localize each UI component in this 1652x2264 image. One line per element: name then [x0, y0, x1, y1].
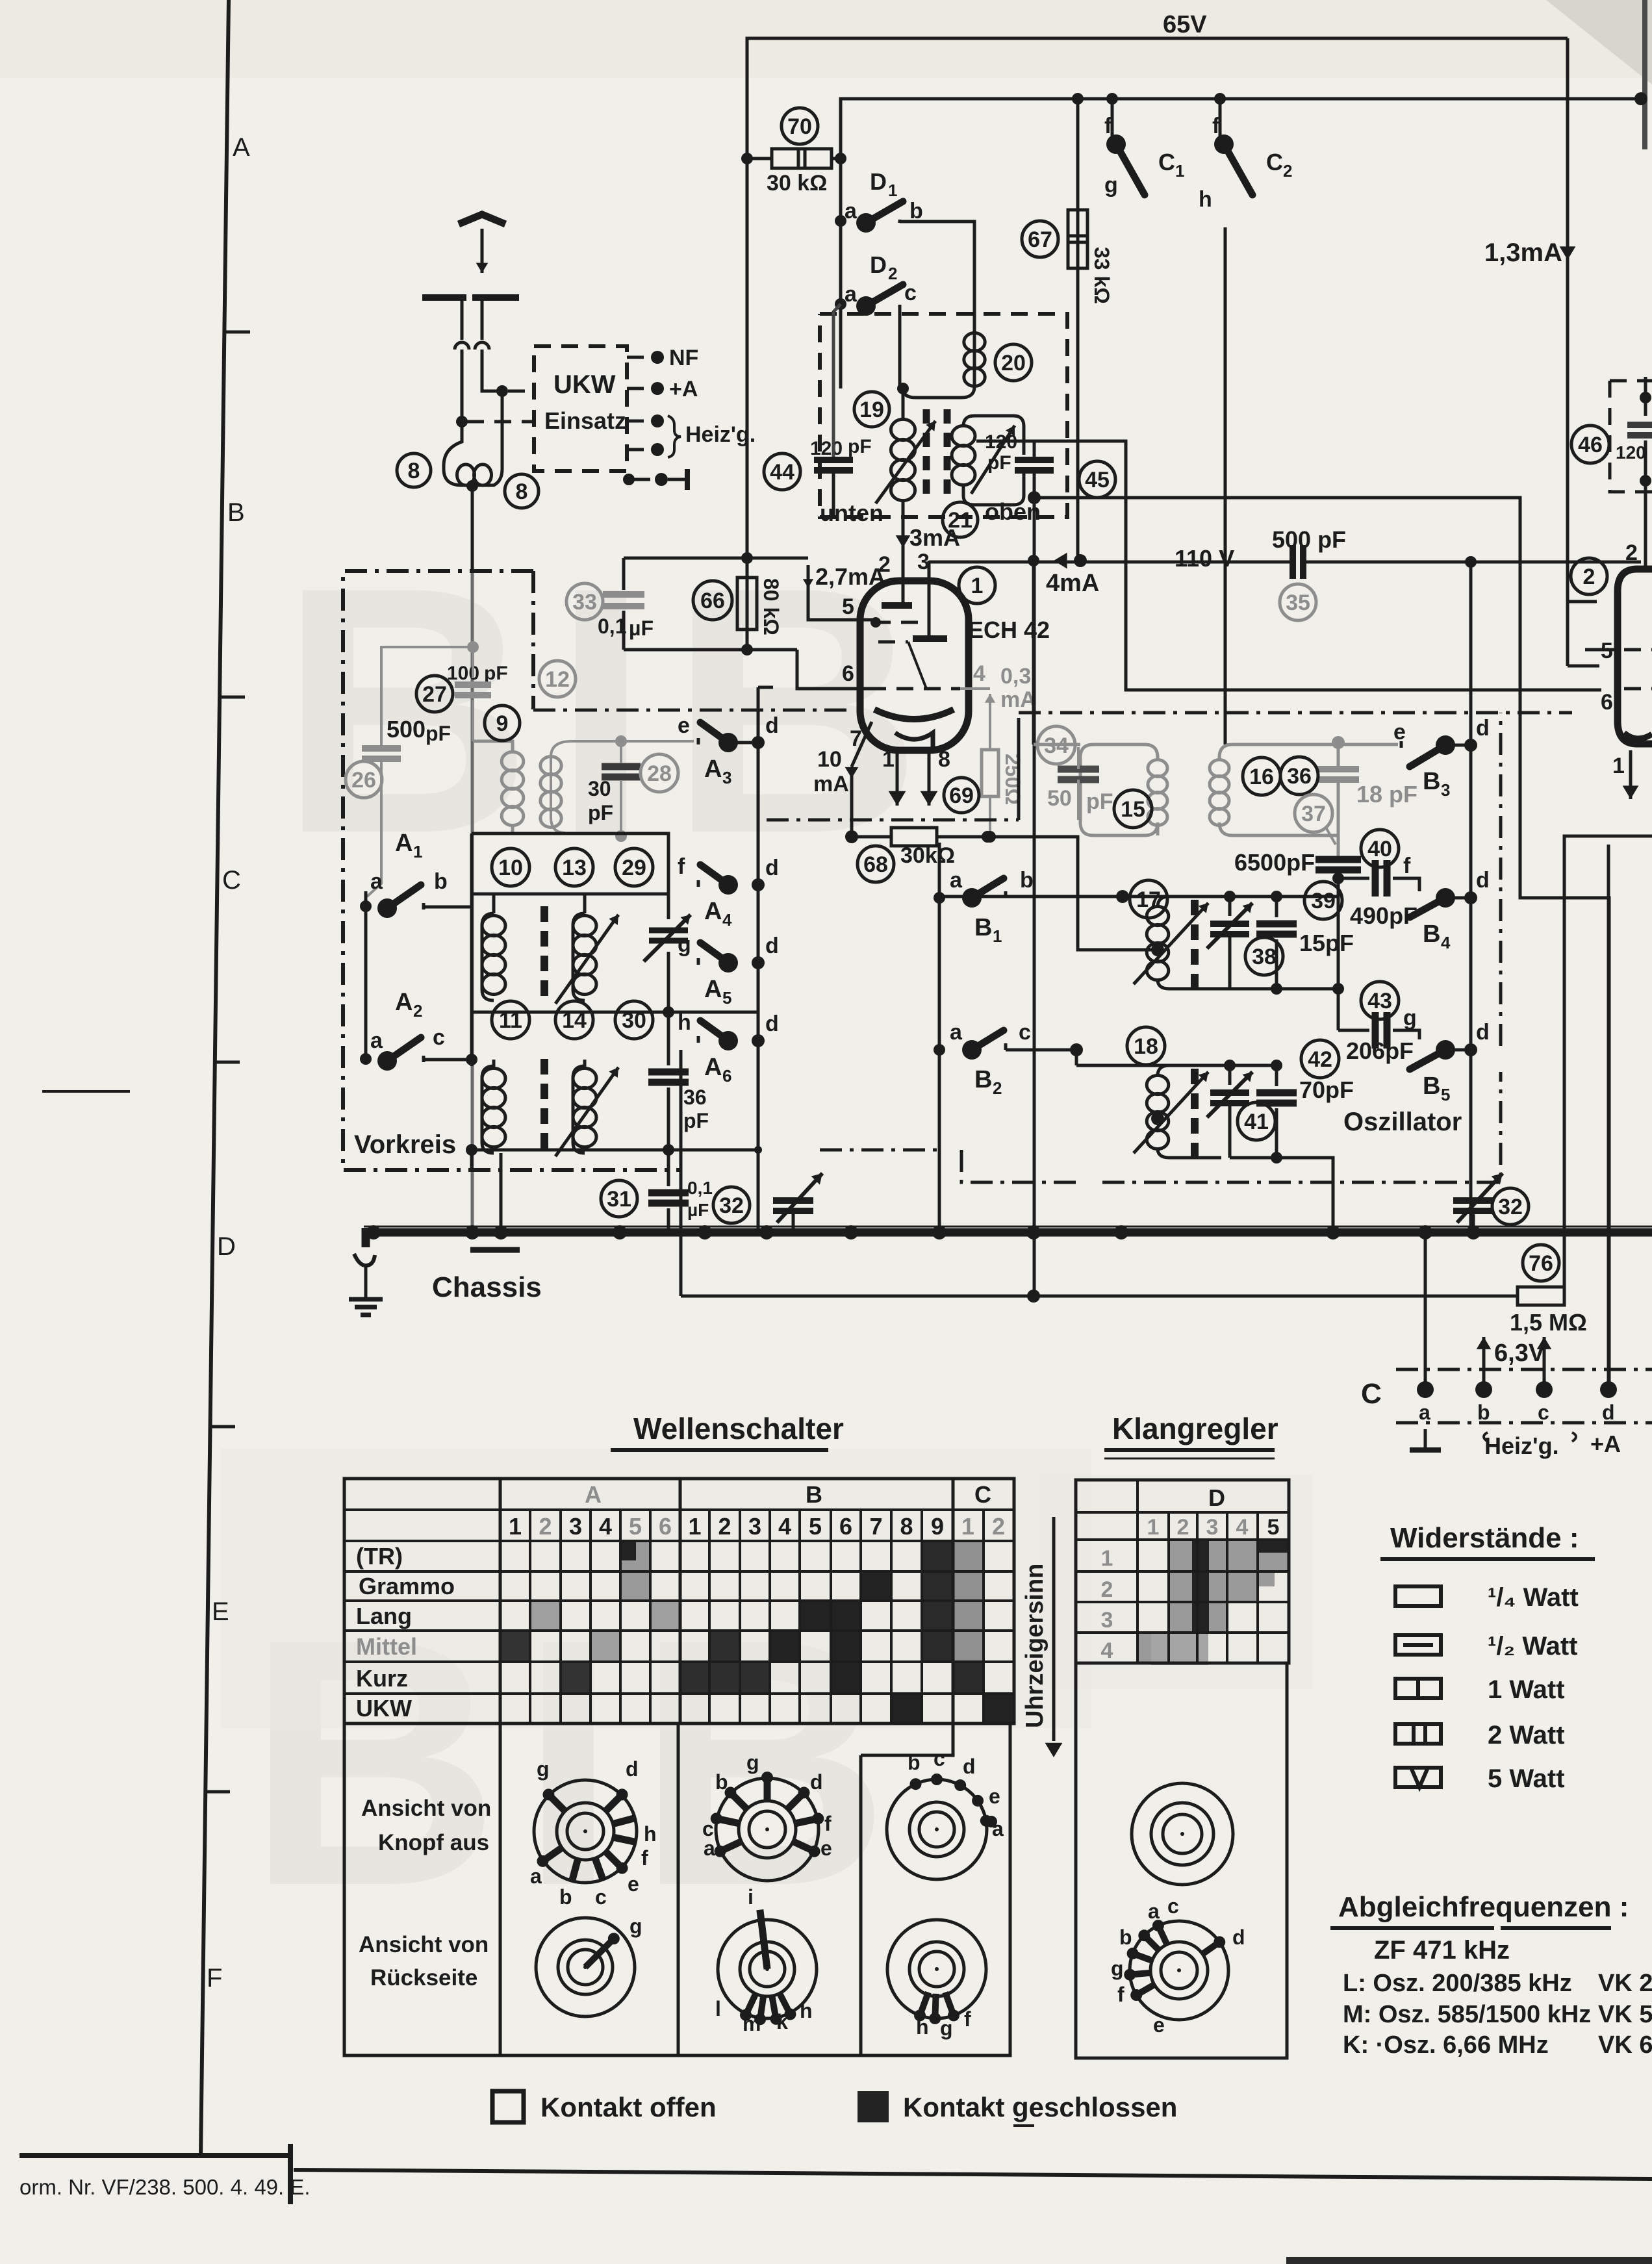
svg-text:A: A — [395, 989, 413, 1016]
svg-text:A: A — [233, 133, 250, 162]
svg-text:Uhrzeigersinn: Uhrzeigersinn — [1021, 1564, 1048, 1728]
svg-text:NF: NF — [669, 346, 698, 370]
capacitor 46 dashed box — [1610, 381, 1652, 492]
svg-text:Ansicht von: Ansicht von — [359, 1932, 489, 1957]
svg-text:10: 10 — [817, 747, 842, 772]
svg-text:16: 16 — [1249, 765, 1274, 789]
node right edge — [1634, 92, 1647, 105]
svg-text:8: 8 — [900, 1513, 913, 1540]
rotary switches outer box — [344, 1723, 1010, 2055]
oscillator can dashed box — [820, 314, 1067, 517]
svg-text:VK 5: VK 5 — [1598, 2001, 1652, 2028]
svg-text:Kontakt geschlossen: Kontakt geschlossen — [903, 2092, 1177, 2122]
svg-text:a: a — [845, 282, 858, 307]
svg-text:39: 39 — [1311, 889, 1336, 913]
svg-text:¹/₂ Watt: ¹/₂ Watt — [1488, 1632, 1577, 1660]
antenna lead left — [461, 298, 464, 340]
svg-text:0,1: 0,1 — [687, 1178, 713, 1198]
gray e-line from coil28 — [621, 740, 694, 743]
margin tick 4 — [42, 1090, 130, 1093]
svg-text:a: a — [1148, 1900, 1160, 1923]
oszillator dash-dot boundary — [820, 1149, 939, 1152]
rotary B Rueckseite — [718, 1920, 817, 2018]
svg-text:100: 100 — [447, 663, 479, 684]
connector C dashdot top — [1396, 1368, 1652, 1371]
svg-text:1: 1 — [1612, 754, 1625, 778]
wire right column down — [757, 1056, 760, 1232]
tube grid dashes row2 — [878, 641, 908, 644]
core dashes 10-13 — [540, 906, 548, 922]
svg-text:6: 6 — [1601, 690, 1613, 715]
trimmer 38 — [1228, 897, 1232, 916]
resonant loop rectangle — [472, 833, 668, 894]
circle 37 gray — [1295, 795, 1332, 832]
wire D1 b to coil20 — [900, 222, 974, 333]
svg-text:c: c — [904, 281, 917, 305]
svg-text:c: c — [1538, 1401, 1549, 1424]
margin tick 2 — [221, 696, 245, 699]
ground symbol — [364, 1266, 368, 1299]
svg-text:a: a — [704, 1837, 715, 1860]
svg-text:32: 32 — [1498, 1195, 1523, 1219]
svg-text:13: 13 — [562, 856, 587, 880]
legend resistor 2 Watt — [1395, 1724, 1441, 1744]
svg-text:5: 5 — [1441, 1085, 1450, 1104]
svg-text:h: h — [678, 1010, 691, 1035]
tube cathode arc — [874, 709, 954, 719]
svg-text:Kontakt offen: Kontakt offen — [540, 2092, 717, 2122]
svg-text:27: 27 — [422, 682, 447, 707]
svg-text:Wellenschalter: Wellenschalter — [633, 1412, 844, 1445]
coil 13 tuning arrow — [555, 915, 618, 1004]
svg-text:a: a — [530, 1864, 542, 1888]
svg-text:6,3V: 6,3V — [1494, 1340, 1545, 1367]
Klangregler bottom box — [1076, 1663, 1287, 2058]
svg-text:2: 2 — [1177, 1515, 1189, 1540]
svg-text:Oszillator: Oszillator — [1343, 1108, 1462, 1136]
svg-text:2: 2 — [1283, 161, 1292, 181]
coil 17 tap dot — [1151, 943, 1164, 956]
svg-text:4: 4 — [973, 661, 985, 686]
trimmer 41 — [1228, 1065, 1232, 1085]
svg-text:c: c — [595, 1885, 607, 1909]
svg-text:110 V: 110 V — [1175, 545, 1234, 572]
svg-text:12: 12 — [545, 667, 570, 692]
core dashes 11-14 — [540, 1059, 548, 1075]
capacitor 34 50pF gray — [1058, 766, 1099, 773]
svg-text:1: 1 — [1101, 1546, 1113, 1571]
svg-text:d: d — [810, 1770, 823, 1794]
UKW contact Heizg 1 — [627, 420, 652, 423]
legend resistor 5 Watt — [1395, 1768, 1441, 1787]
mixer coil 17 b-line — [942, 895, 1123, 898]
pin 4 wire gray — [960, 687, 990, 690]
svg-text:Klangregler: Klangregler — [1112, 1412, 1278, 1445]
wire tube2 cathode return x2408 — [1564, 836, 1652, 1296]
svg-text:65V: 65V — [1163, 11, 1207, 38]
svg-text:500: 500 — [387, 716, 426, 743]
UKW contact Heizg 2 — [627, 448, 652, 452]
svg-text:30: 30 — [588, 777, 611, 800]
trimmer 29 — [667, 894, 670, 919]
Wellenschalter black cells — [620, 1541, 636, 1560]
svg-text:d: d — [1476, 868, 1490, 893]
svg-text:29: 29 — [622, 856, 646, 880]
svg-text:3: 3 — [1441, 780, 1450, 800]
svg-text:26: 26 — [351, 768, 376, 793]
wire x1591 into can15 — [1034, 743, 1080, 746]
svg-text:Mittel: Mittel — [356, 1633, 417, 1660]
wire coil11 return to bus — [500, 1153, 503, 1232]
dashed link to UKW top — [508, 390, 534, 393]
svg-text:a: a — [1419, 1401, 1430, 1424]
coil17 cell bottom wire — [1169, 987, 1338, 991]
IF can 16 gray — [1219, 744, 1338, 835]
margin tick 6 — [206, 1790, 230, 1794]
svg-text:h: h — [800, 1999, 813, 2022]
svg-text:68: 68 — [863, 852, 888, 877]
svg-text:1: 1 — [1175, 161, 1184, 181]
tube ECH42 envelope — [860, 581, 969, 750]
svg-text:3: 3 — [748, 1513, 761, 1540]
svg-text:1: 1 — [993, 926, 1002, 946]
antenna coil 8 — [444, 422, 502, 485]
tube grid slant — [908, 642, 926, 689]
wire a to bus — [1424, 1232, 1427, 1390]
pin 7 wire to cathode rail — [850, 778, 854, 837]
left margin line — [201, 0, 229, 2156]
svg-text:38: 38 — [1252, 945, 1277, 969]
connector pins — [1417, 1381, 1434, 1398]
svg-text:d: d — [1476, 716, 1490, 741]
svg-text:3: 3 — [569, 1513, 582, 1540]
svg-text:VK 6: VK 6 — [1598, 2031, 1652, 2059]
svg-text:e: e — [678, 713, 690, 738]
coil 14 tuning arrow — [555, 1067, 618, 1156]
wire e-line from node16 — [1338, 743, 1398, 746]
coil 21 tuning arrow — [971, 426, 1015, 494]
svg-text:a: a — [950, 868, 963, 893]
svg-text:9: 9 — [496, 711, 509, 736]
svg-text:70: 70 — [787, 114, 812, 139]
svg-text:ECH 42: ECH 42 — [968, 617, 1050, 643]
svg-text:1: 1 — [413, 842, 422, 861]
coil 19 — [902, 388, 905, 420]
legend resistor 1/2 Watt — [1395, 1635, 1441, 1655]
capacitor 43 206pF — [1361, 982, 1399, 1019]
wire d down from tube2 — [1608, 1390, 1609, 1423]
row A4 wire — [472, 1011, 758, 1014]
svg-text:UKW: UKW — [356, 1695, 412, 1722]
circle 10 — [492, 848, 529, 886]
coil 17 tuning arrow — [1134, 903, 1208, 984]
svg-text:1: 1 — [1147, 1515, 1160, 1540]
svg-text:Heiz'g.: Heiz'g. — [685, 422, 756, 447]
svg-text:10: 10 — [498, 856, 523, 880]
svg-text:18 pF: 18 pF — [1356, 781, 1417, 808]
antenna wire left down — [461, 350, 464, 422]
svg-text:µF: µF — [629, 617, 654, 640]
core dashes 17 — [1191, 900, 1199, 915]
svg-text:k: k — [776, 2010, 788, 2033]
tube grid pin6 dashes — [869, 687, 960, 691]
svg-text:11: 11 — [499, 1008, 522, 1033]
svg-text:c: c — [1167, 1894, 1179, 1918]
wire x2060 down to coil cell — [1337, 989, 1340, 1030]
svg-text:2: 2 — [1625, 541, 1638, 565]
svg-text:7: 7 — [850, 726, 862, 751]
capacitor 40 490pF — [1361, 830, 1399, 867]
svg-text:e: e — [989, 1785, 1000, 1808]
svg-text:d: d — [1232, 1926, 1245, 1949]
pin 6 wire — [797, 650, 869, 689]
dash-dot AVC under tube — [767, 819, 1019, 822]
svg-text:6: 6 — [842, 661, 854, 686]
Uhrzeigersinn arrow — [1052, 1517, 1056, 1741]
svg-text:l: l — [715, 1997, 721, 2020]
Wellenschalter table grid — [344, 1479, 1014, 1723]
pin 1 arrow — [896, 750, 899, 806]
svg-text:1 Watt: 1 Watt — [1488, 1675, 1565, 1704]
svg-text:D: D — [870, 168, 887, 195]
IF can 15 gray — [1080, 744, 1158, 835]
pin 3 wire — [928, 561, 931, 636]
svg-text:b: b — [909, 199, 923, 223]
antenna wire right down — [482, 350, 502, 391]
rotary B Knopf aus — [716, 1778, 819, 1881]
circle 12 gray — [539, 661, 576, 697]
svg-text:A: A — [585, 1481, 602, 1508]
svg-text:K: ·Osz. 6,66 MHz: K: ·Osz. 6,66 MHz — [1343, 2031, 1549, 2059]
svg-text:d: d — [1602, 1401, 1615, 1424]
wire 45 loop to tube2 grid line — [976, 441, 1601, 690]
coil 18 — [1127, 1027, 1165, 1065]
capacitor 37 6500pF — [1315, 856, 1361, 863]
svg-text:44: 44 — [770, 460, 794, 485]
svg-text:7: 7 — [869, 1513, 882, 1540]
svg-text:67: 67 — [1028, 227, 1052, 252]
Vorkreis dashed box — [343, 571, 681, 1170]
margin tick 5 — [211, 1425, 235, 1429]
second top rail y152 — [841, 99, 1641, 159]
pin 8 arrow — [928, 750, 931, 806]
Heizg brace — [668, 416, 681, 457]
svg-text:1: 1 — [971, 574, 984, 598]
svg-text:pF: pF — [426, 722, 451, 745]
svg-text:3: 3 — [1206, 1515, 1219, 1540]
chassis bus — [364, 1228, 1652, 1237]
svg-text:1: 1 — [961, 1513, 974, 1540]
svg-text:8: 8 — [516, 479, 528, 504]
svg-text:D: D — [1208, 1484, 1225, 1511]
rotary A Knopf aus — [534, 1780, 637, 1883]
svg-text:a: a — [370, 869, 383, 894]
svg-text:500 pF: 500 pF — [1272, 526, 1346, 553]
svg-text:5 Watt: 5 Watt — [1488, 1764, 1565, 1793]
wire 110V into tube2 area — [1556, 561, 1585, 563]
svg-text:f: f — [964, 2007, 971, 2031]
coil 17 — [1130, 880, 1167, 918]
margin tick 3 — [216, 1061, 240, 1064]
svg-text:4: 4 — [1236, 1515, 1249, 1540]
svg-text:4: 4 — [599, 1513, 612, 1540]
row A6 wire — [472, 1149, 758, 1152]
svg-text:¹/₄ Watt: ¹/₄ Watt — [1488, 1583, 1579, 1612]
svg-text:Abgleichfrequenzen :: Abgleichfrequenzen : — [1338, 1891, 1629, 1923]
pin 5 wire — [808, 570, 876, 622]
rotary C Rueckseite — [887, 1920, 986, 2018]
svg-text:43: 43 — [1367, 989, 1392, 1013]
svg-text:d: d — [765, 713, 779, 738]
svg-text:F: F — [207, 1964, 222, 1992]
circle 11 — [492, 1001, 529, 1039]
svg-text:8: 8 — [938, 747, 950, 772]
svg-text:0,3: 0,3 — [1000, 664, 1031, 689]
legend Kontakt geschlossen — [858, 2091, 889, 2122]
svg-text:i: i — [748, 1885, 754, 1909]
trimmer 32 left — [769, 1150, 812, 1193]
circle 14 — [555, 1001, 593, 1039]
svg-text:206pF: 206pF — [1346, 1037, 1414, 1064]
wire left column down to A2 — [470, 894, 474, 1060]
right area box lines — [1470, 712, 1471, 713]
svg-text:Ansicht von: Ansicht von — [361, 1796, 491, 1821]
A rail x1167 — [757, 687, 760, 1056]
svg-text:h: h — [644, 1822, 657, 1846]
svg-text:d: d — [765, 856, 779, 880]
svg-text:g: g — [1111, 1957, 1124, 1980]
wire y859 anode supply — [624, 557, 808, 560]
scan shadow top right corner — [1546, 0, 1652, 84]
svg-text:c: c — [1019, 1020, 1031, 1045]
capacitor 39 15pF — [1275, 897, 1278, 917]
circle 46 — [1571, 426, 1609, 463]
svg-text:80 kΩ: 80 kΩ — [759, 578, 783, 635]
rotary A Rueckseite — [536, 1918, 635, 2016]
svg-text:1,3mA: 1,3mA — [1484, 238, 1562, 267]
thin line above chassis bus — [364, 1226, 1652, 1228]
svg-text:f: f — [1117, 1983, 1125, 2006]
svg-text:2: 2 — [539, 1513, 552, 1540]
svg-text:31: 31 — [607, 1187, 631, 1212]
svg-text:C: C — [1158, 149, 1175, 175]
wire D2 c down to coil19 — [898, 305, 902, 388]
svg-text:2: 2 — [992, 1513, 1005, 1540]
svg-text:19: 19 — [859, 398, 884, 422]
svg-text:B: B — [1423, 1073, 1440, 1100]
svg-text:1: 1 — [509, 1513, 522, 1540]
svg-text:2: 2 — [993, 1078, 1002, 1098]
svg-text:70pF: 70pF — [1299, 1076, 1354, 1103]
svg-text:30: 30 — [622, 1008, 646, 1033]
svg-text:2: 2 — [888, 264, 897, 283]
svg-text:2: 2 — [1101, 1577, 1113, 1602]
svg-text:e: e — [1393, 720, 1406, 744]
svg-text:36: 36 — [1287, 764, 1312, 789]
svg-text:8: 8 — [408, 459, 420, 483]
svg-text:b: b — [715, 1770, 728, 1794]
chassis tap — [470, 1247, 520, 1253]
B rail x2264 — [1469, 562, 1473, 1232]
svg-text:g: g — [1403, 1006, 1417, 1030]
capacitor 33 0,1uF gray — [622, 558, 626, 590]
coil 21 oben — [963, 416, 1024, 455]
coil18 cell bottom wire — [1230, 1158, 1333, 1232]
rotary D Rueckseite — [1130, 1921, 1228, 2020]
svg-text:Rückseite: Rückseite — [370, 1965, 477, 1991]
chassis bus left drop — [362, 1228, 370, 1247]
svg-text:b: b — [434, 869, 448, 894]
Klangregler gray cells — [1169, 1540, 1258, 1602]
svg-text:250Ω: 250Ω — [1001, 754, 1024, 805]
svg-text:45: 45 — [1085, 468, 1110, 492]
coil 11 — [470, 1060, 474, 1066]
svg-text:(TR): (TR) — [356, 1543, 403, 1570]
coil 20 — [903, 333, 974, 398]
cathode rail to B trunk — [987, 837, 1158, 950]
wire left column down to chassis row — [470, 1150, 474, 1170]
wire pin2 from 3mA — [902, 548, 905, 604]
svg-text:d: d — [765, 934, 779, 958]
wire trunk x1290 down from resistor — [839, 159, 843, 388]
svg-text:D: D — [217, 1232, 236, 1261]
svg-text:B: B — [227, 498, 245, 527]
bottom-left frame line — [19, 2153, 290, 2158]
svg-text:D: D — [870, 251, 887, 278]
svg-text:6: 6 — [659, 1513, 672, 1540]
circle 8 right — [505, 474, 539, 508]
wire y1000 screen — [624, 648, 797, 652]
65V supply rail — [747, 38, 1568, 159]
svg-text:Lang: Lang — [356, 1603, 412, 1629]
svg-text:e: e — [628, 1872, 639, 1896]
rotary D Knopf aus — [1132, 1783, 1233, 1885]
svg-text:15pF: 15pF — [1299, 930, 1354, 956]
svg-text:6500pF: 6500pF — [1234, 849, 1315, 876]
svg-text:2: 2 — [718, 1513, 731, 1540]
wire trimmer32 to bus — [792, 1211, 795, 1232]
wire x1659 from rail y152 down — [1076, 99, 1080, 561]
margin tick 1 — [226, 331, 250, 334]
svg-text:f: f — [678, 854, 685, 879]
svg-text:5: 5 — [842, 594, 854, 619]
wire 110V 4mA line — [929, 561, 1293, 562]
svg-text:Grammo: Grammo — [359, 1573, 455, 1599]
svg-text:18: 18 — [1134, 1034, 1158, 1059]
svg-text:A: A — [704, 756, 722, 783]
svg-text:pF: pF — [484, 663, 508, 684]
svg-text:66: 66 — [700, 589, 725, 613]
trimmer 30 cap 36pF — [667, 1012, 670, 1065]
wire b arrow 6,3V — [1482, 1337, 1486, 1390]
coil 13 — [583, 894, 587, 913]
svg-text:30 kΩ: 30 kΩ — [767, 171, 827, 196]
capacitor 31 0,1uF — [667, 1150, 670, 1186]
wire 4mA trunk x1591 down — [1032, 561, 1036, 744]
wire a-trunk 563 — [364, 891, 368, 1059]
svg-text:d: d — [1476, 1020, 1490, 1045]
svg-text:Knopf aus: Knopf aus — [378, 1830, 489, 1855]
wire h down to IF can 16 — [1224, 227, 1227, 744]
svg-text:a: a — [370, 1028, 383, 1053]
tube 2 grid dashes — [1624, 648, 1652, 652]
core dashes 19-21 — [923, 409, 930, 424]
wire cap43 g-line — [1338, 1029, 1369, 1032]
svg-text:A: A — [704, 976, 722, 1003]
Wellenschalter gray cells — [620, 1541, 650, 1601]
svg-text:mA: mA — [1000, 687, 1036, 712]
dash-dot AVC main line — [533, 709, 852, 712]
